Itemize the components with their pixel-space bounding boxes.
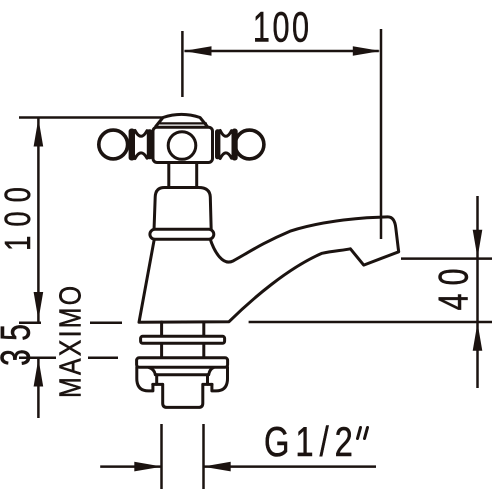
svg-text:100: 100 bbox=[253, 2, 309, 50]
svg-text:100: 100 bbox=[0, 187, 38, 251]
svg-text:G1/2: G1/2 bbox=[264, 418, 353, 465]
svg-text:MAXIMO: MAXIMO bbox=[53, 286, 87, 398]
